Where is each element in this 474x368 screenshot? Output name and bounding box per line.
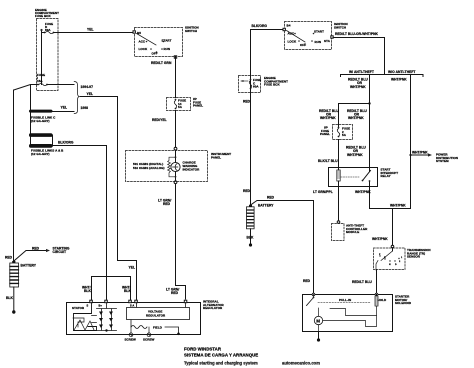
svg-text:LT GRN/PPL: LT GRN/PPL xyxy=(313,190,333,194)
screw grounds xyxy=(125,327,155,342)
svg-text:STA: STA xyxy=(324,39,331,43)
fusible links A and B (12 GA-GRY) xyxy=(29,133,64,156)
wire RED/LT BLU-OR-WHT/PNK xyxy=(333,32,384,75)
svg-text:REGULATOR: REGULATOR xyxy=(203,306,223,310)
anti-theft split xyxy=(341,70,424,77)
svg-text:BLK/LT BLU: BLK/LT BLU xyxy=(318,159,338,163)
ground (left battery) xyxy=(12,310,15,313)
wire WHT/PNK relay out xyxy=(355,187,371,209)
stator winding xyxy=(72,303,97,331)
battery (left) xyxy=(10,261,37,287)
svg-text:BLK/ORG: BLK/ORG xyxy=(58,140,74,144)
battery (right) xyxy=(243,189,274,247)
terminal I (regulator) xyxy=(184,300,187,303)
svg-text:5A: 5A xyxy=(178,105,183,109)
merge bracket WHT/PNK xyxy=(370,204,411,246)
wire RED/YEL xyxy=(152,111,176,148)
svg-text:WHT/PNK: WHT/PNK xyxy=(390,204,406,208)
svg-text:automecanico.com: automecanico.com xyxy=(282,361,320,366)
svg-text:2: 2 xyxy=(399,261,401,263)
svg-text:W/O ANTI-THEFT: W/O ANTI-THEFT xyxy=(388,70,416,74)
instrument panel box xyxy=(126,147,232,181)
fuse D 60A xyxy=(44,22,55,34)
svg-text:B+: B+ xyxy=(99,304,103,308)
svg-text:CIRCUIT: CIRCUIT xyxy=(53,250,67,254)
svg-text:RED: RED xyxy=(163,202,171,206)
svg-text:(12 GA-GRY): (12 GA-GRY) xyxy=(31,119,50,123)
svg-text:INDICATOR: INDICATOR xyxy=(183,167,201,171)
svg-text:60A: 60A xyxy=(253,85,259,89)
starting circuit branch xyxy=(13,246,70,262)
svg-text:SCREW: SCREW xyxy=(143,338,155,342)
wire diagonal to battery feed xyxy=(14,85,38,91)
svg-text:S A: S A xyxy=(130,304,134,308)
diode bridge xyxy=(92,303,117,332)
starter motor/solenoid xyxy=(303,293,412,332)
svg-text:RED: RED xyxy=(32,246,40,250)
wire battery to starter RED xyxy=(250,196,314,295)
svg-text:RED: RED xyxy=(171,291,179,295)
svg-text:OFF: OFF xyxy=(152,52,158,56)
svg-text:WHT/PNK: WHT/PNK xyxy=(347,153,363,157)
svg-text:LOCK: LOCK xyxy=(139,47,148,51)
wire W/ anti-theft branch xyxy=(348,75,370,168)
voltage regulator xyxy=(127,303,190,320)
terminal S (stator sense left) xyxy=(87,300,93,307)
svg-text:BATTERY: BATTERY xyxy=(21,264,37,268)
wire fusible link spine xyxy=(30,85,32,147)
svg-text:HOLD: HOLD xyxy=(378,298,387,302)
svg-text:(12 GA-GRY): (12 GA-GRY) xyxy=(31,152,50,156)
svg-text:1994-97: 1994-97 xyxy=(81,85,94,89)
svg-text:SYSTEM: SYSTEM xyxy=(436,159,449,163)
svg-text:WHT/PNK: WHT/PNK xyxy=(355,190,371,194)
svg-text:LOCK: LOCK xyxy=(288,39,297,43)
svg-text:BLK: BLK xyxy=(247,236,254,240)
wire YEL fuse D to ignition switch xyxy=(54,28,135,33)
svg-text:YEL: YEL xyxy=(61,106,68,110)
svg-text:BLK: BLK xyxy=(6,296,13,300)
svg-text:PULL-IN: PULL-IN xyxy=(339,298,351,302)
svg-text:RUN: RUN xyxy=(164,47,171,51)
svg-text:SCREW: SCREW xyxy=(125,338,137,342)
wire battery feed RED xyxy=(5,90,14,261)
svg-text:P: P xyxy=(379,254,381,256)
svg-text:STATOR: STATOR xyxy=(72,306,85,310)
wire 1994-97 YEL xyxy=(47,85,93,90)
svg-text:RED: RED xyxy=(267,196,275,200)
svg-text:RED: RED xyxy=(303,279,311,283)
brace merge 1994-97/1998 xyxy=(74,82,93,114)
wire battery to ignition (right) BLK/ORG xyxy=(251,24,285,205)
svg-text:YEL: YEL xyxy=(87,92,94,96)
svg-text:START: START xyxy=(314,30,324,34)
svg-text:BLK/ORG: BLK/ORG xyxy=(252,24,268,28)
stator sense loop wires WHT/BLK xyxy=(82,277,131,301)
svg-text:FUSE: FUSE xyxy=(37,73,45,77)
ignition switch (right) xyxy=(283,22,348,50)
field coil xyxy=(131,320,180,335)
svg-text:PANEL: PANEL xyxy=(320,132,330,136)
wire fuse box internal vertical xyxy=(42,30,45,85)
I/P fuse panel (left) fuse 14 5A xyxy=(167,97,204,111)
svg-text:WHT/PNK: WHT/PNK xyxy=(372,237,388,241)
svg-text:WHT/PNK: WHT/PNK xyxy=(391,78,407,82)
wire BLK/LT BLU xyxy=(318,140,366,168)
wire YEL merged to alternator A terminal xyxy=(81,97,137,301)
svg-text:15A: 15A xyxy=(37,79,43,83)
wire RED/LT GRN xyxy=(151,57,176,98)
svg-text:1: 1 xyxy=(401,257,403,259)
svg-text:PANEL: PANEL xyxy=(211,155,221,159)
wire battery negative BLK xyxy=(6,287,14,311)
svg-text:WHT/PNK: WHT/PNK xyxy=(320,116,336,120)
svg-text:BATTERY: BATTERY xyxy=(258,204,274,208)
svg-text:510 OHMS (ANALOG): 510 OHMS (ANALOG) xyxy=(133,166,165,170)
wire BLK/ORG to alternator B+ xyxy=(53,140,107,300)
svg-text:SENSOR: SENSOR xyxy=(407,255,421,259)
fuse I 15A xyxy=(37,73,48,86)
svg-text:RED/LT BLU: RED/LT BLU xyxy=(352,280,372,284)
svg-text:WHT/PNK: WHT/PNK xyxy=(350,85,366,89)
svg-text:RED/LT BLU-OR-WHT/PNK: RED/LT BLU-OR-WHT/PNK xyxy=(335,32,378,36)
svg-text:RED: RED xyxy=(243,189,251,193)
transmission range (TR) sensor xyxy=(374,245,431,270)
svg-text:D: D xyxy=(395,264,397,266)
svg-text:FORD WINDSTAR: FORD WINDSTAR xyxy=(184,347,222,352)
svg-text:1998: 1998 xyxy=(81,106,89,110)
svg-text:N: N xyxy=(389,264,391,266)
svg-text:YEL: YEL xyxy=(87,28,94,32)
svg-text:M: M xyxy=(316,318,320,323)
svg-text:START: START xyxy=(162,39,172,43)
svg-text:SOLENOID: SOLENOID xyxy=(395,301,412,305)
svg-text:MODULE: MODULE xyxy=(346,230,359,234)
anti-theft controller module xyxy=(332,221,369,241)
svg-text:R: R xyxy=(384,257,386,259)
svg-text:RED/YEL: RED/YEL xyxy=(152,118,167,122)
svg-text:SWITCH: SWITCH xyxy=(185,29,197,33)
svg-text:RED: RED xyxy=(243,100,251,104)
engine compartment fuse box (left) xyxy=(35,8,59,91)
svg-text:PANEL: PANEL xyxy=(193,104,203,108)
svg-text:ACC: ACC xyxy=(139,40,146,44)
svg-text:BLK: BLK xyxy=(124,289,131,293)
wire LT GRN/PPL to anti-theft module xyxy=(313,187,339,221)
svg-text:B4: B4 xyxy=(287,24,291,28)
wire 1998 YEL xyxy=(53,106,89,112)
fusible link C (12 GA-GRY) xyxy=(29,110,56,123)
svg-text:RED: RED xyxy=(5,256,13,260)
svg-text:SISTEMA DE CARGA Y ARRANQUE: SISTEMA DE CARGA Y ARRANQUE xyxy=(184,353,258,358)
alternator / integral alternator regulator box xyxy=(67,300,225,335)
svg-text:YEL: YEL xyxy=(129,266,136,270)
svg-text:5A: 5A xyxy=(342,133,347,137)
svg-text:Typical starting and charging: Typical starting and charging system xyxy=(184,361,258,366)
svg-text:FUSE BOX: FUSE BOX xyxy=(264,83,280,87)
start interrupt relay xyxy=(329,168,399,187)
svg-text:ACC: ACC xyxy=(288,32,295,36)
ignition switch (left) xyxy=(133,26,199,59)
node junction to fuse 2 xyxy=(319,102,371,127)
svg-text:WHT/PNK: WHT/PNK xyxy=(348,116,364,120)
svg-text:FIELD: FIELD xyxy=(153,325,163,329)
svg-text:FUSE BOX: FUSE BOX xyxy=(35,14,51,18)
charge warning indicator xyxy=(171,150,200,180)
svg-text:OFF: OFF xyxy=(300,43,306,47)
svg-text:WHT/PNK: WHT/PNK xyxy=(412,150,428,154)
wire RED/LT BLU to starter xyxy=(352,270,377,295)
svg-text:RELAY: RELAY xyxy=(381,174,391,178)
resistor 501/510 ohms xyxy=(133,157,176,177)
I/P fuse panel (right) fuse 2 5A xyxy=(320,125,353,140)
svg-text:REGULATOR: REGULATOR xyxy=(146,313,166,317)
svg-text:BLK: BLK xyxy=(84,289,91,293)
terminal B+ xyxy=(99,300,108,307)
wire W/O anti-theft branch WHT/PNK xyxy=(391,75,411,209)
svg-text:S: S xyxy=(87,304,89,308)
svg-text:W/ ANTI-THEFT: W/ ANTI-THEFT xyxy=(349,70,374,74)
svg-text:RUN: RUN xyxy=(315,40,322,44)
terminal A xyxy=(130,300,137,307)
ground (starter) xyxy=(317,332,320,342)
svg-text:RED/LT GRN: RED/LT GRN xyxy=(151,61,172,65)
svg-text:SWITCH: SWITCH xyxy=(334,25,346,29)
caption xyxy=(184,347,320,366)
engine compartment fuse box (right) fuse C 60A xyxy=(239,76,289,104)
terminal S (stator sense right) xyxy=(129,300,132,303)
wire LT GRN/RED to alternator xyxy=(158,181,186,299)
power distribution tap xyxy=(409,150,458,163)
